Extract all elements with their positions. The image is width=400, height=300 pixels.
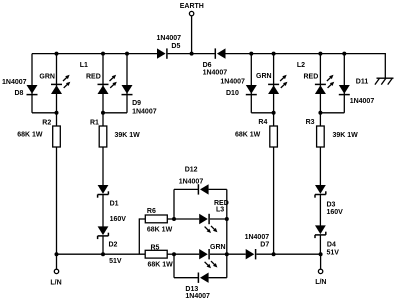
wire R3 to D3: [319, 147, 321, 185]
diode D5 1N4007: [157, 35, 182, 59]
svg-text:D5: D5: [171, 43, 180, 50]
ground (chassis): [375, 78, 394, 84]
svg-text:1N4007: 1N4007: [245, 234, 270, 241]
svg-text:GRN: GRN: [256, 73, 272, 80]
svg-text:RED: RED: [304, 73, 319, 80]
svg-text:68K 1W: 68K 1W: [147, 227, 173, 234]
resistor R5 68K 1W: [145, 245, 173, 269]
svg-text:L1: L1: [80, 62, 88, 69]
wire top left: [32, 53, 157, 55]
svg-text:R5: R5: [151, 245, 160, 252]
svg-text:1N4007: 1N4007: [185, 293, 210, 300]
svg-text:D10: D10: [226, 90, 239, 97]
EARTH terminal: [180, 3, 204, 16]
node R4 bottom: [272, 252, 276, 256]
wire R6 branch: [139, 218, 145, 254]
wire bottom left: [57, 253, 146, 255]
wire top mid: [168, 53, 215, 55]
svg-text:GRN: GRN: [39, 74, 55, 81]
terminal L/N left: [50, 254, 61, 286]
wire top right: [226, 53, 386, 55]
wire box right rail: [226, 189, 228, 277]
wire box left rail upper: [173, 189, 175, 219]
LED GRN (left, L1): [39, 74, 70, 94]
wire earth stub: [191, 16, 193, 53]
wire R3 upper lead: [319, 113, 321, 126]
svg-text:D12: D12: [185, 166, 198, 173]
node R1 top: [101, 111, 105, 115]
resistor R4 68K 1W: [235, 119, 277, 147]
node R6-box junction: [172, 217, 176, 221]
svg-text:D9: D9: [132, 100, 141, 107]
svg-text:R6: R6: [147, 208, 156, 215]
wire column D9: [126, 54, 128, 113]
svg-text:160V: 160V: [110, 216, 127, 223]
wire box to D7: [227, 253, 246, 255]
wire column D11: [343, 54, 345, 113]
svg-text:L2: L2: [297, 62, 305, 69]
node R5-box junction: [172, 252, 176, 256]
svg-text:68K 1W: 68K 1W: [148, 262, 174, 269]
svg-text:1N4007: 1N4007: [157, 35, 182, 42]
wire D3 to D4: [319, 195, 321, 226]
LED RED (left, L1): [86, 73, 117, 94]
svg-text:D6: D6: [203, 62, 212, 69]
svg-text:R3: R3: [306, 119, 315, 126]
node R2 top: [55, 111, 59, 115]
svg-text:51V: 51V: [109, 258, 122, 265]
svg-text:RED: RED: [86, 73, 101, 80]
wire D2 to bottom: [102, 236, 104, 254]
wire GRN row right: [210, 253, 227, 255]
svg-text:1N4007: 1N4007: [2, 79, 27, 86]
resistor R1 39K 1W: [90, 119, 140, 147]
node D2 bottom: [101, 252, 105, 256]
node D10 top: [249, 52, 253, 56]
wire R1 to D1: [102, 147, 104, 185]
svg-text:GRN: GRN: [210, 244, 226, 251]
svg-text:D2: D2: [109, 242, 118, 249]
node D11 top: [342, 52, 346, 56]
LED GRN (centre): [199, 244, 225, 268]
wire D4 to bottom: [319, 235, 321, 254]
wire R6 right lead: [167, 218, 174, 220]
zener D2 51V: [98, 226, 122, 265]
diode D10 1N4007: [220, 79, 256, 98]
svg-text:R2: R2: [42, 120, 51, 127]
svg-text:68K 1W: 68K 1W: [235, 132, 261, 139]
svg-text:1N4007: 1N4007: [203, 69, 228, 76]
svg-text:D13: D13: [185, 286, 198, 293]
wire right drop: [384, 53, 386, 78]
svg-text:39K 1W: 39K 1W: [333, 132, 359, 139]
node RED L3 right: [225, 217, 229, 221]
terminal L/N right: [315, 254, 326, 286]
wire bar RED-D11: [320, 112, 344, 114]
diode D12 1N4007: [179, 166, 209, 194]
svg-text:D1: D1: [110, 201, 119, 208]
svg-text:R4: R4: [258, 119, 267, 126]
diode D9 1N4007: [122, 85, 157, 116]
svg-text:39K 1W: 39K 1W: [115, 132, 141, 139]
wire R2 to bottom: [56, 147, 58, 254]
zener D4 51V: [315, 225, 339, 256]
svg-text:1N4007: 1N4007: [350, 98, 375, 105]
wire box top rail: [174, 188, 227, 190]
diode D7 1N4007: [245, 234, 270, 259]
svg-text:1N4007: 1N4007: [132, 109, 157, 116]
node GRN2 top: [272, 52, 276, 56]
wire RED L3 row left: [174, 218, 199, 220]
svg-text:160V: 160V: [327, 209, 344, 216]
LED RED L3: [199, 200, 229, 233]
wire bar D8-GRN: [32, 112, 57, 114]
diode D6 1N4007: [203, 48, 228, 76]
svg-text:D3: D3: [327, 202, 336, 209]
wire column GRN2: [273, 54, 275, 113]
svg-text:L/N: L/N: [315, 279, 326, 286]
wire bar RED-D9: [103, 112, 127, 114]
node R3 top: [318, 111, 322, 115]
wire column GRN1: [56, 54, 58, 113]
node D4 bottom: [319, 252, 323, 256]
svg-text:D7: D7: [260, 241, 269, 248]
svg-text:L3: L3: [216, 207, 224, 214]
svg-text:L/N: L/N: [50, 280, 61, 287]
LED GRN (right, L2): [256, 73, 287, 94]
svg-text:EARTH: EARTH: [180, 3, 204, 10]
node GRN centre right: [225, 252, 229, 256]
diode D13 1N4007: [185, 273, 210, 300]
wire R4 to bottom: [273, 147, 275, 254]
svg-text:D11: D11: [356, 79, 369, 86]
resistor R2 68K 1W: [17, 120, 60, 148]
node GRN1 top: [55, 52, 59, 56]
wire bar D10-GRN: [251, 112, 273, 114]
resistor R6 68K 1W: [145, 208, 172, 233]
node RED2 top: [318, 52, 322, 56]
svg-text:D4: D4: [327, 242, 336, 249]
wire R1 upper lead: [102, 113, 104, 126]
wire R5 right lead: [167, 253, 174, 255]
node R4 top: [272, 111, 276, 115]
zener D3 160V: [315, 185, 343, 216]
wire column D10: [250, 54, 252, 113]
wire GRN row left: [174, 253, 199, 255]
svg-text:1N4007: 1N4007: [179, 178, 204, 185]
wire column RED1: [102, 54, 104, 113]
wire D1 to D2: [102, 195, 104, 227]
wire box left rail lower: [173, 254, 175, 278]
wire R4 upper lead: [273, 113, 275, 126]
svg-text:D8: D8: [15, 90, 24, 97]
node earth junction: [190, 52, 194, 56]
diode D8 1N4007: [2, 79, 38, 97]
wire RED L3 row right: [210, 218, 227, 220]
svg-text:R1: R1: [90, 119, 99, 126]
svg-text:51V: 51V: [327, 249, 340, 256]
svg-text:68K 1W: 68K 1W: [17, 131, 43, 138]
wire box bottom rail: [174, 277, 227, 279]
wire column D8: [31, 54, 33, 113]
node L/N left junction: [55, 252, 59, 256]
node RED1 top: [101, 52, 105, 56]
wire column RED2: [319, 54, 321, 113]
svg-text:1N4007: 1N4007: [220, 79, 245, 86]
LED RED (right, L2): [304, 73, 335, 94]
node D9 top: [125, 52, 129, 56]
wire D7 to L/N right: [256, 253, 320, 255]
diode D11 1N4007: [339, 79, 375, 105]
wire R2 upper lead: [56, 113, 58, 126]
zener D1 160V: [98, 185, 127, 223]
resistor R3 39K 1W: [306, 119, 359, 147]
